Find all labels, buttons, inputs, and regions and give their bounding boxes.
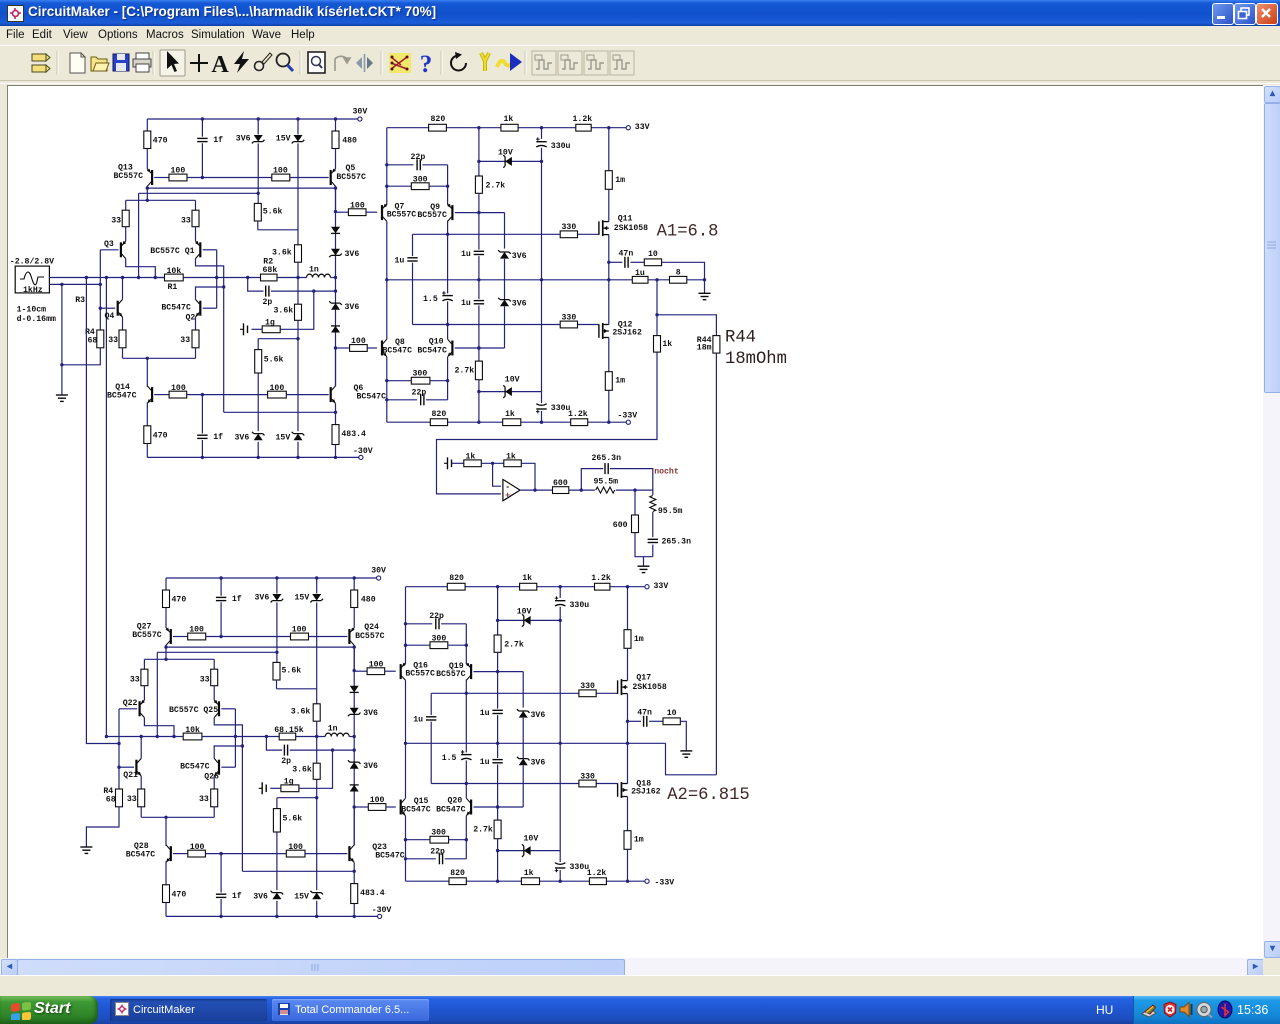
resistor 483.4 bbox=[351, 884, 358, 904]
wire bbox=[297, 143, 299, 244]
diode bbox=[350, 686, 359, 693]
capacitor 1.5 bbox=[460, 750, 473, 760]
svg-text:3V6: 3V6 bbox=[345, 250, 360, 259]
junction bbox=[540, 160, 543, 163]
wire bbox=[478, 280, 480, 299]
wire bbox=[165, 645, 167, 660]
node VAS bottom bbox=[334, 346, 337, 349]
wire bbox=[156, 652, 158, 736]
capacitor 1u bbox=[491, 709, 504, 715]
resistor 480 bbox=[351, 590, 358, 608]
wire bbox=[349, 736, 354, 738]
wire bbox=[62, 348, 100, 365]
wire bbox=[258, 338, 298, 340]
capacitor 1u (left) bbox=[425, 715, 438, 721]
svg-text:10k: 10k bbox=[185, 725, 200, 735]
wire to driver base bbox=[354, 670, 367, 672]
wire bbox=[522, 765, 524, 807]
resistor 1k (bottom) bbox=[503, 419, 521, 426]
svg-text:10V: 10V bbox=[505, 376, 520, 385]
svg-text:1m: 1m bbox=[634, 836, 644, 845]
resistor 1g bbox=[262, 326, 280, 333]
junction bbox=[559, 619, 562, 622]
wire 10V bbox=[479, 391, 542, 393]
diode bbox=[331, 326, 340, 333]
wire bbox=[213, 659, 215, 669]
svg-text:Q26: Q26 bbox=[204, 772, 219, 781]
svg-text:-33V: -33V bbox=[655, 879, 675, 888]
svg-text:Q20: Q20 bbox=[448, 797, 463, 806]
resistor 330 (upper gate) bbox=[560, 231, 577, 238]
ground bbox=[56, 395, 68, 401]
svg-text:100: 100 bbox=[351, 337, 366, 346]
resistor 33 bbox=[192, 210, 199, 227]
resistor 10 bbox=[644, 259, 661, 266]
wire source- bbox=[49, 283, 100, 285]
svg-text:1k: 1k bbox=[506, 451, 516, 461]
wire bbox=[213, 807, 215, 818]
transistor Q1 BC557C bbox=[195, 241, 201, 259]
svg-text:Q17: Q17 bbox=[636, 673, 651, 682]
resistor 3.6k (upper) bbox=[313, 704, 320, 721]
svg-text:BC557C: BC557C bbox=[355, 632, 385, 641]
junction bbox=[201, 456, 204, 459]
wire bbox=[465, 679, 467, 693]
wire bbox=[648, 279, 670, 281]
wire R44 column bbox=[715, 353, 717, 775]
svg-text:1-10cm: 1-10cm bbox=[17, 306, 47, 315]
junction bbox=[626, 880, 629, 883]
junction bbox=[315, 576, 318, 579]
wire bbox=[430, 380, 448, 382]
wire bbox=[276, 901, 278, 917]
wire base bbox=[173, 853, 188, 855]
transistor Q26 BC547C bbox=[214, 758, 220, 776]
resistor 100 bbox=[367, 668, 385, 675]
zener 3V6 (upper) bbox=[517, 709, 530, 717]
junction bbox=[265, 735, 268, 738]
wire bbox=[559, 870, 561, 881]
resistor 330 (upper gate) bbox=[579, 690, 596, 697]
transistor Q14 BC547C bbox=[147, 386, 153, 404]
wire bias column bbox=[353, 647, 355, 845]
wire bbox=[195, 317, 197, 330]
mosfet Q17 2SK1058 bbox=[618, 679, 628, 695]
node VAS top bbox=[353, 669, 356, 672]
wire -30V rail bbox=[147, 456, 358, 458]
svg-text:BC547C: BC547C bbox=[375, 851, 405, 860]
svg-text:Q22: Q22 bbox=[123, 699, 138, 708]
wire bbox=[140, 776, 142, 789]
voltage source V1 -2.8/2.8V 1kHz bbox=[15, 266, 49, 293]
svg-text:1u: 1u bbox=[635, 269, 645, 278]
wire bbox=[143, 686, 145, 700]
wire bbox=[174, 736, 183, 738]
op-amp U1 bbox=[503, 479, 520, 500]
mosfet Q18 2SJ162 bbox=[618, 782, 628, 798]
svg-text:-30V: -30V bbox=[372, 906, 392, 915]
svg-text:2SK1058: 2SK1058 bbox=[632, 683, 666, 692]
junction bbox=[296, 117, 299, 120]
svg-text:1f: 1f bbox=[213, 432, 223, 442]
ac ground bbox=[240, 323, 248, 335]
resistor 95.5m bbox=[596, 487, 615, 493]
junction bbox=[496, 880, 499, 883]
resistor R4 68 (lower) bbox=[116, 789, 123, 807]
terminal -30V bbox=[378, 914, 382, 918]
svg-text:483.4: 483.4 bbox=[341, 430, 366, 439]
wire bbox=[386, 280, 388, 339]
wire bbox=[627, 587, 629, 630]
junction bbox=[334, 117, 337, 120]
junction bbox=[315, 735, 318, 738]
wire bbox=[412, 263, 414, 325]
svg-text:68.15k: 68.15k bbox=[274, 725, 304, 735]
wire bbox=[143, 659, 145, 669]
node VAS bottom bbox=[353, 805, 356, 808]
zener 3V6 (lower) bbox=[517, 757, 530, 765]
wire bbox=[138, 193, 140, 277]
wire bbox=[447, 325, 449, 340]
wire bbox=[541, 148, 543, 280]
wire output node bbox=[387, 279, 633, 281]
svg-text:100: 100 bbox=[369, 660, 384, 669]
wire main bbox=[202, 736, 279, 738]
wire bbox=[387, 185, 412, 187]
zener 3V6 bbox=[329, 249, 342, 257]
resistor 100 bbox=[169, 391, 187, 398]
junction bbox=[385, 185, 388, 188]
svg-text:300: 300 bbox=[413, 369, 428, 378]
wire feedback top bbox=[437, 352, 658, 494]
svg-text:1k: 1k bbox=[524, 868, 534, 878]
zener 3V6 bbox=[348, 760, 361, 768]
svg-text:330: 330 bbox=[580, 682, 595, 691]
svg-text:10V: 10V bbox=[498, 149, 513, 158]
wire opamp out bbox=[520, 489, 553, 491]
svg-text:A: A bbox=[211, 52, 229, 78]
resistor 600 bbox=[553, 487, 569, 494]
resistor 820 (top) bbox=[429, 124, 447, 131]
wire bbox=[406, 644, 431, 646]
svg-text:820: 820 bbox=[449, 574, 464, 583]
wire bbox=[335, 403, 337, 424]
resistor 2.7k (upper) bbox=[475, 176, 482, 193]
svg-text:95.5m: 95.5m bbox=[594, 478, 619, 487]
svg-text:470: 470 bbox=[153, 137, 168, 146]
mosfet Q11 2SK1058 bbox=[599, 220, 609, 236]
wire bbox=[608, 390, 610, 422]
junction bbox=[626, 720, 629, 723]
svg-text:R3: R3 bbox=[75, 296, 85, 305]
wire base bbox=[100, 307, 115, 309]
svg-text:100: 100 bbox=[288, 843, 303, 852]
junction bbox=[201, 393, 204, 396]
wire bbox=[627, 797, 629, 831]
junction bbox=[334, 411, 337, 414]
wire bbox=[627, 648, 629, 680]
junction bbox=[540, 421, 543, 424]
junction bbox=[99, 307, 102, 310]
wire bbox=[248, 278, 264, 292]
wire base bbox=[455, 212, 505, 214]
svg-text:33: 33 bbox=[181, 217, 191, 226]
svg-text:Q5: Q5 bbox=[346, 164, 356, 173]
resistor 1.2k (bottom) bbox=[571, 419, 588, 426]
svg-text:820: 820 bbox=[431, 115, 446, 124]
resistor R44 18m bbox=[713, 336, 720, 354]
wire bbox=[634, 490, 636, 515]
wire bbox=[165, 578, 167, 590]
junction bbox=[201, 176, 204, 179]
svg-text:480: 480 bbox=[342, 137, 357, 146]
svg-text:300: 300 bbox=[431, 828, 446, 837]
svg-text:1g: 1g bbox=[284, 778, 294, 787]
capacitor 330u (bottom) bbox=[535, 403, 548, 413]
junction bbox=[446, 379, 449, 382]
junction bbox=[315, 915, 318, 918]
wire -33V rail bbox=[387, 421, 626, 423]
svg-text:Q24: Q24 bbox=[364, 623, 379, 632]
junction bbox=[703, 278, 706, 281]
svg-text:1n: 1n bbox=[309, 266, 319, 275]
wire bbox=[196, 259, 224, 413]
junction bbox=[385, 163, 388, 166]
svg-text:BC557C: BC557C bbox=[405, 669, 435, 678]
wire bbox=[497, 743, 499, 758]
wire bbox=[335, 119, 337, 131]
zener 15V bbox=[292, 135, 305, 143]
wire bbox=[353, 862, 355, 883]
capacitor 2p bbox=[283, 744, 289, 756]
wire bbox=[126, 259, 156, 278]
wire bbox=[220, 899, 222, 916]
resistor 1.2k (bottom) bbox=[589, 878, 606, 885]
svg-text:265.3n: 265.3n bbox=[592, 454, 622, 463]
wire bbox=[187, 177, 272, 179]
resistor 33 bbox=[122, 210, 129, 227]
junction bbox=[315, 796, 318, 799]
wire Q13-Q5 collectors bbox=[166, 646, 354, 648]
transistor Q10 BC547C bbox=[448, 339, 454, 357]
wire bbox=[266, 737, 282, 751]
wire bbox=[610, 469, 653, 491]
svg-text:330u: 330u bbox=[551, 142, 571, 151]
svg-text:100: 100 bbox=[270, 384, 285, 393]
resistor 3.6k (lower) bbox=[295, 304, 302, 320]
svg-text:10k: 10k bbox=[167, 266, 182, 276]
resistor 1k (fb) bbox=[504, 460, 522, 467]
capacitor 1u bbox=[491, 758, 504, 764]
junction bbox=[533, 488, 536, 491]
resistor 300 (bottom) bbox=[411, 377, 430, 384]
zener 3V6 bbox=[271, 594, 284, 602]
wire bbox=[122, 317, 124, 330]
junction bbox=[446, 233, 449, 236]
svg-text:3V6: 3V6 bbox=[253, 892, 268, 901]
junction bbox=[312, 289, 315, 292]
wire bbox=[367, 347, 377, 349]
wire 10V bbox=[498, 850, 561, 852]
svg-text:d-0.16mm: d-0.16mm bbox=[17, 314, 56, 324]
svg-text:A2=6.815: A2=6.815 bbox=[667, 786, 750, 805]
wire bbox=[277, 277, 307, 279]
transistor Q9 BC557C bbox=[447, 204, 453, 222]
capacitor 22p (bottom) bbox=[438, 853, 444, 865]
diode bbox=[350, 785, 359, 792]
wire bbox=[609, 261, 623, 263]
wire Q13-Q5 collectors bbox=[147, 187, 335, 189]
wire pair emitters bbox=[144, 658, 214, 660]
svg-text:18mOhm: 18mOhm bbox=[725, 350, 787, 369]
terminal 33V bbox=[645, 585, 649, 589]
svg-text:47n: 47n bbox=[637, 708, 652, 717]
zener 15V bbox=[292, 432, 305, 440]
junction bbox=[446, 185, 449, 188]
svg-text:30V: 30V bbox=[371, 567, 386, 576]
svg-text:100: 100 bbox=[350, 201, 365, 210]
junction bbox=[540, 278, 543, 281]
resistor 100 bbox=[272, 174, 290, 181]
ac ground bbox=[259, 782, 267, 794]
zener 3V6 (upper) bbox=[498, 250, 511, 258]
wire bbox=[608, 280, 610, 325]
svg-text:BC557C: BC557C bbox=[132, 631, 162, 640]
resistor 3.6k (lower) bbox=[313, 763, 320, 779]
junction bbox=[334, 289, 337, 292]
svg-text:2SJ162: 2SJ162 bbox=[612, 329, 642, 338]
wire bbox=[430, 722, 432, 784]
wire bbox=[165, 608, 167, 629]
wire bbox=[387, 164, 414, 166]
junction bbox=[404, 838, 407, 841]
junction bbox=[385, 398, 388, 401]
wire bbox=[297, 442, 299, 458]
svg-text:BC557C: BC557C bbox=[417, 211, 447, 220]
wire gate bias upper bbox=[431, 692, 617, 694]
wire bbox=[316, 901, 318, 917]
resistor 1k (top) bbox=[501, 124, 518, 131]
resistor 1.2k (top) bbox=[595, 583, 610, 590]
resistor R4 68 bbox=[97, 330, 104, 348]
wire bbox=[541, 128, 543, 139]
wire base bbox=[203, 249, 217, 251]
wire bbox=[497, 764, 499, 820]
junction bbox=[496, 670, 499, 673]
wire base column bbox=[118, 709, 120, 789]
zener 10V (lower) bbox=[503, 385, 512, 398]
svg-text:1g: 1g bbox=[265, 319, 275, 328]
junction bbox=[465, 782, 468, 785]
resistor 5.6k (lower) bbox=[255, 350, 262, 373]
junction bbox=[446, 323, 449, 326]
svg-text:33: 33 bbox=[111, 217, 121, 226]
svg-text:BC547C: BC547C bbox=[417, 346, 447, 355]
svg-text:3V6: 3V6 bbox=[512, 252, 527, 261]
ground bbox=[80, 847, 92, 853]
resistor 820 (bottom) bbox=[430, 419, 447, 426]
junction bbox=[222, 285, 225, 288]
capacitor 1f (bottom) bbox=[215, 893, 228, 899]
ac ground bbox=[444, 457, 452, 469]
wire bbox=[497, 652, 499, 708]
capacitor 330u (top) bbox=[554, 596, 567, 606]
svg-text:33: 33 bbox=[127, 795, 137, 804]
svg-text:1.2k: 1.2k bbox=[568, 409, 588, 419]
junction bbox=[246, 276, 249, 279]
resistor 5.6k (lower) bbox=[273, 809, 280, 832]
transistor Q22 BC557C bbox=[139, 700, 145, 718]
capacitor 330u (bottom) bbox=[554, 862, 567, 872]
wire bbox=[478, 305, 480, 361]
wire bbox=[331, 277, 336, 279]
resistor 1u bbox=[632, 276, 648, 283]
wire bbox=[497, 839, 499, 882]
wire bbox=[305, 853, 347, 855]
wire bbox=[652, 490, 654, 495]
wire bbox=[366, 211, 377, 213]
wire bbox=[385, 670, 396, 672]
wire bbox=[155, 277, 164, 279]
wire base bbox=[173, 636, 188, 638]
wire base bbox=[100, 249, 118, 251]
wire bbox=[426, 399, 448, 401]
wire bbox=[522, 672, 524, 708]
wire bbox=[405, 743, 407, 798]
transistor Q20 BC547C bbox=[466, 798, 472, 816]
wire bbox=[280, 291, 314, 329]
wire to driver base bbox=[354, 806, 368, 808]
svg-text:BC547C: BC547C bbox=[161, 303, 191, 312]
transistor Q15 BC547C bbox=[400, 798, 406, 816]
wire 33V rail bbox=[387, 127, 626, 129]
wire bbox=[165, 861, 167, 885]
wire bbox=[386, 806, 396, 808]
svg-text:BC547C: BC547C bbox=[436, 805, 466, 814]
junction bbox=[465, 644, 468, 647]
wire 30V rail bbox=[166, 577, 376, 579]
wire bbox=[447, 301, 449, 324]
wire bbox=[504, 306, 506, 348]
junction bbox=[257, 192, 260, 195]
zener 3V6 (lower) bbox=[498, 298, 511, 306]
wire bbox=[353, 904, 355, 917]
wire bbox=[195, 348, 197, 359]
svg-text:480: 480 bbox=[361, 596, 376, 605]
svg-text:47n: 47n bbox=[619, 249, 634, 258]
wire 10V bbox=[479, 160, 542, 162]
svg-text:330: 330 bbox=[562, 223, 577, 232]
svg-text:30V: 30V bbox=[353, 108, 368, 117]
svg-text:Q2: Q2 bbox=[186, 313, 196, 322]
capacitor 1u (left) bbox=[406, 256, 419, 262]
junction bbox=[334, 456, 337, 459]
wire bbox=[252, 328, 263, 330]
wire bbox=[643, 557, 645, 567]
svg-text:BC547C: BC547C bbox=[357, 392, 387, 401]
wire bbox=[652, 545, 654, 557]
wire bbox=[214, 718, 242, 872]
resistor 33 bbox=[119, 330, 126, 348]
resistor 100 bbox=[268, 391, 287, 398]
resistor 1g bbox=[281, 785, 299, 792]
wire bbox=[335, 149, 337, 170]
svg-text:470: 470 bbox=[172, 596, 187, 605]
svg-text:3V6: 3V6 bbox=[363, 709, 378, 718]
junction bbox=[353, 576, 356, 579]
svg-text:18m: 18m bbox=[697, 343, 712, 352]
wire bbox=[201, 143, 203, 177]
